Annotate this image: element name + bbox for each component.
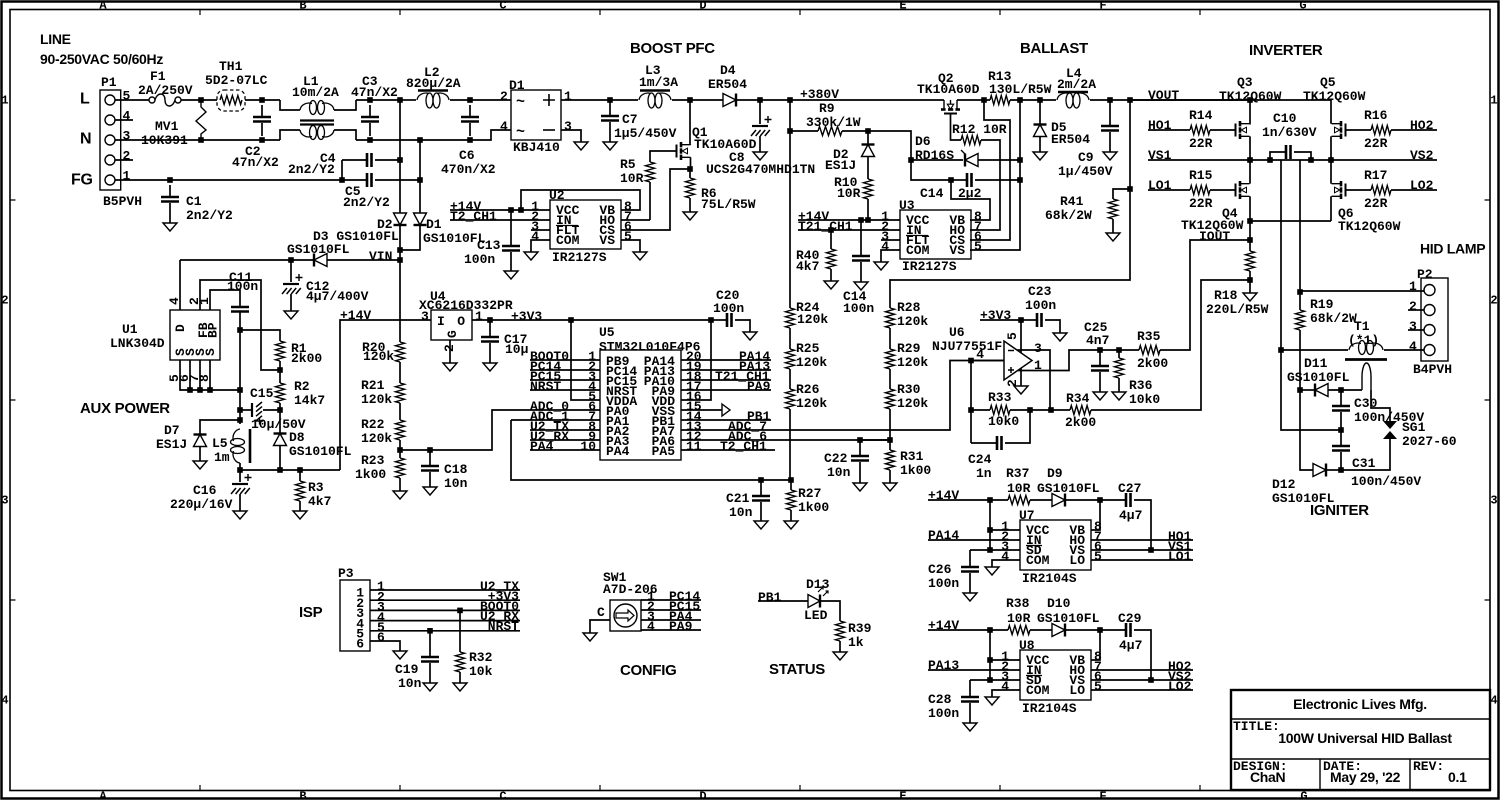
- svg-text:10: 10: [580, 439, 596, 454]
- junction: [427, 628, 433, 634]
- wire top rail to L2: [400, 99, 416, 101]
- junction: [237, 417, 243, 423]
- capacitor C23: [1021, 319, 1037, 321]
- mosfet Q1: [689, 100, 691, 145]
- svg-text:VS2: VS2: [1410, 148, 1434, 163]
- svg-text:U7: U7: [1019, 508, 1035, 523]
- svg-text:LO2: LO2: [1410, 178, 1434, 193]
- svg-text:2k00: 2k00: [291, 351, 322, 366]
- diode D12: [1313, 464, 1326, 477]
- ground: [574, 142, 588, 150]
- svg-text:4: 4: [647, 619, 655, 634]
- wire U5 pin19: [681, 369, 771, 371]
- junction: [757, 97, 763, 103]
- capacitor C20: [711, 319, 727, 321]
- ground: [423, 487, 437, 495]
- svg-text:330k/1W: 330k/1W: [806, 115, 861, 130]
- wire P3 pin1: [370, 589, 520, 591]
- wire U7 pin4 COM to ground: [992, 560, 1020, 567]
- junction: [417, 137, 423, 143]
- wire U3 VB to C14: [951, 180, 990, 220]
- svg-text:CONFIG: CONFIG: [620, 662, 677, 679]
- svg-text:R27: R27: [798, 486, 821, 501]
- ground: [963, 723, 977, 731]
- ground: [985, 567, 999, 575]
- wire ADC_0 row: [400, 410, 600, 450]
- wire U5 pin13 ADC_7: [681, 361, 1004, 431]
- ground: [293, 511, 307, 519]
- svg-text:+3V3: +3V3: [511, 309, 542, 324]
- svg-text:MV1: MV1: [155, 119, 179, 134]
- junction: [1278, 347, 1284, 353]
- wire fuse to node: [181, 99, 217, 101]
- junction: [568, 317, 574, 323]
- junction: [198, 137, 204, 143]
- svg-text:D9: D9: [1047, 466, 1063, 481]
- capacitor C7: [609, 100, 611, 115]
- ground: [163, 223, 177, 231]
- wire L2 to C6/bridge: [450, 99, 511, 101]
- mosfet Q1 drain-source leads: [690, 157, 692, 169]
- svg-text:100n: 100n: [1025, 298, 1056, 313]
- inductor L1 common-mode choke: [280, 100, 300, 110]
- svg-text:ChaN: ChaN: [1250, 769, 1286, 785]
- svg-text:R37: R37: [1006, 466, 1029, 481]
- wire Q2 gate to R12: [951, 114, 962, 141]
- junction: [1097, 347, 1103, 353]
- svg-text:1m/3A: 1m/3A: [639, 75, 678, 90]
- wire U7 pin3 SD: [970, 549, 1020, 551]
- wire source bus: [180, 360, 240, 390]
- wire +14V column U8: [989, 630, 991, 680]
- wire R13 to L4: [1010, 99, 1056, 101]
- junction: [987, 627, 993, 633]
- svg-text:2A/250V: 2A/250V: [138, 83, 193, 98]
- svg-text:1k00: 1k00: [798, 500, 829, 515]
- junction: [1328, 157, 1334, 163]
- svg-text:1: 1: [564, 89, 572, 104]
- svg-text:10k0: 10k0: [988, 414, 1019, 429]
- wire P3 pin2: [370, 599, 520, 601]
- wire U5 pin2: [530, 369, 600, 371]
- connector P3: [340, 580, 370, 651]
- svg-text:R28: R28: [897, 300, 921, 315]
- wire VS2: [1331, 159, 1437, 161]
- svg-text:1: 1: [1409, 279, 1417, 294]
- diode D1 input: [414, 213, 427, 225]
- wire U2 VCC to VB loop: [521, 190, 640, 210]
- resistor R1: [276, 341, 285, 361]
- wire bridge pin1 out: [561, 99, 638, 101]
- ground: [1112, 392, 1126, 400]
- svg-text:R22: R22: [361, 417, 385, 432]
- ground: [883, 483, 897, 491]
- resistor R36: [1118, 350, 1120, 358]
- capacitor C30: [1340, 390, 1342, 405]
- junction: [1297, 387, 1303, 393]
- wire VIN to R20: [399, 260, 401, 342]
- resistor R24: [786, 308, 795, 328]
- svg-text:14k7: 14k7: [294, 393, 325, 408]
- svg-text:100n/450V: 100n/450V: [1351, 474, 1421, 489]
- wire U7 VB: [1091, 500, 1100, 530]
- ground: [1093, 392, 1107, 400]
- junction: [708, 317, 714, 323]
- capacitor C10: [1270, 152, 1286, 160]
- wire D3 to VIN junction: [327, 259, 400, 261]
- capacitor C26: [969, 550, 971, 566]
- svg-text:D12: D12: [1272, 477, 1296, 492]
- junction: [948, 177, 954, 183]
- wire U5 pin1: [530, 359, 600, 361]
- svg-text:U8: U8: [1019, 638, 1035, 653]
- svg-text:5: 5: [1005, 332, 1020, 340]
- svg-text:HO1: HO1: [1148, 118, 1172, 133]
- resistor R38: [1008, 626, 1030, 635]
- wire U6 pin2 to ground: [1020, 368, 1022, 386]
- capacitor C29: [1100, 629, 1126, 631]
- svg-text:B4PVH: B4PVH: [1413, 362, 1452, 377]
- svg-text:U1: U1: [122, 322, 138, 337]
- ground: [284, 311, 298, 319]
- P1 stub pin2: [115, 159, 133, 161]
- resistor R21: [396, 383, 405, 403]
- junction: [1267, 157, 1273, 163]
- svg-text:E: E: [899, 0, 906, 13]
- svg-text:BALLAST: BALLAST: [1020, 40, 1088, 57]
- svg-text:A: A: [99, 790, 107, 800]
- ground: [963, 593, 977, 601]
- resistor R37: [1008, 496, 1030, 505]
- svg-text:C29: C29: [1118, 611, 1142, 626]
- junction: [607, 97, 613, 103]
- junction: [1338, 387, 1344, 393]
- svg-text:C14: C14: [920, 186, 944, 201]
- svg-text:LINE: LINE: [40, 31, 71, 47]
- capacitor C3: [369, 105, 371, 116]
- resistor R22: [396, 420, 405, 440]
- wire aux output row: [240, 469, 340, 471]
- wire ADC_1 filter row: [511, 420, 791, 480]
- svg-text:S: S: [203, 348, 218, 356]
- svg-text:R5: R5: [620, 157, 636, 172]
- wire N to bridge pin4: [420, 130, 511, 140]
- svg-text:R12 10R: R12 10R: [952, 122, 1007, 137]
- ground: [743, 332, 757, 340]
- junction: [1127, 186, 1133, 192]
- svg-text:PA4: PA4: [606, 444, 630, 459]
- svg-text:C1: C1: [186, 194, 202, 209]
- wire U8 pin3 SD: [970, 679, 1020, 681]
- svg-text:C9: C9: [1078, 150, 1094, 165]
- wire FG: [115, 179, 342, 181]
- svg-text:R19: R19: [1310, 297, 1334, 312]
- junction: [865, 217, 871, 223]
- svg-text:TK12Q60W: TK12Q60W: [1338, 219, 1401, 234]
- svg-text:90-250VAC 50/60Hz: 90-250VAC 50/60Hz: [40, 51, 163, 67]
- svg-text:120k: 120k: [796, 396, 827, 411]
- capacitor C27: [1100, 499, 1126, 501]
- svg-text:C22: C22: [824, 451, 848, 466]
- svg-text:R31: R31: [900, 449, 924, 464]
- connector P1: [100, 90, 121, 190]
- transformer T1 primary: [1281, 349, 1348, 351]
- svg-text:VS: VS: [599, 233, 615, 248]
- svg-text:4µ7: 4µ7: [1119, 508, 1142, 523]
- wire U5 pin11: [681, 449, 775, 451]
- wire U3 pin2 IN: [798, 229, 900, 231]
- resistor R12: [961, 136, 981, 145]
- wire Q6 gate to R17: [1346, 189, 1371, 191]
- svg-text:120k: 120k: [361, 431, 392, 446]
- junction: [237, 387, 243, 393]
- svg-text:P2: P2: [1417, 267, 1433, 282]
- svg-text:F: F: [1099, 790, 1106, 800]
- svg-text:4: 4: [881, 239, 889, 254]
- junction: [467, 97, 473, 103]
- svg-text:3: 3: [123, 129, 131, 144]
- resistor R16: [1371, 126, 1391, 135]
- wire U5 pin20: [681, 359, 771, 361]
- svg-text:T2_CH1: T2_CH1: [720, 439, 767, 454]
- svg-text:10R: 10R: [620, 171, 644, 186]
- ground: [754, 521, 768, 529]
- svg-text:C26: C26: [928, 562, 952, 577]
- inductor L2: [418, 89, 448, 92]
- svg-text:A: A: [99, 0, 107, 13]
- junction: [397, 97, 403, 103]
- resistor R5: [646, 162, 655, 182]
- resistor R6: [689, 169, 691, 178]
- junction: [1247, 277, 1253, 283]
- wire VOUT sense feed: [890, 100, 1130, 308]
- wire PB1 to LED: [758, 600, 808, 602]
- svg-text:C18: C18: [444, 462, 468, 477]
- junction: [397, 247, 403, 253]
- svg-text:+14V: +14V: [928, 618, 959, 633]
- resistor R27: [790, 480, 792, 490]
- wire R12 to U3 HO: [970, 140, 1000, 230]
- svg-text:1µ/450V: 1µ/450V: [1058, 164, 1113, 179]
- resistor R29: [886, 349, 895, 369]
- svg-text:ER504: ER504: [1051, 132, 1090, 147]
- svg-text:2n2/Y2: 2n2/Y2: [186, 208, 233, 223]
- capacitor C14 decoupling: [860, 220, 862, 255]
- svg-text:R29: R29: [897, 341, 921, 356]
- svg-text:R30: R30: [897, 382, 921, 397]
- wire SW1 pin1: [641, 599, 701, 601]
- svg-text:R25: R25: [796, 341, 820, 356]
- svg-text:4: 4: [1490, 694, 1497, 708]
- wire D4 to +380 rail: [736, 99, 944, 101]
- wire P3 pin4: [370, 620, 520, 622]
- junction: [1027, 407, 1033, 413]
- junction: [987, 497, 993, 503]
- svg-text:120k: 120k: [796, 355, 827, 370]
- svg-text:T2_CH1: T2_CH1: [450, 209, 497, 224]
- junction: [237, 467, 243, 473]
- resistor R34: [1070, 406, 1091, 415]
- wire U1 pin1 BP to C11: [210, 290, 240, 310]
- svg-text:R15: R15: [1189, 168, 1213, 183]
- svg-text:GS1010FL: GS1010FL: [287, 242, 350, 257]
- junction: [687, 97, 693, 103]
- wire VOUT rail: [1130, 99, 1330, 101]
- wire R1 top: [240, 330, 280, 341]
- svg-text:100n: 100n: [464, 252, 495, 267]
- svg-text:D: D: [173, 324, 188, 332]
- junction: [297, 467, 303, 473]
- resistor R30: [886, 389, 895, 409]
- resistor R15: [1190, 186, 1210, 195]
- svg-text:IR2127S: IR2127S: [552, 250, 607, 265]
- op-amp U6 NJU77551F: [1004, 341, 1032, 380]
- svg-text:C15: C15: [250, 386, 274, 401]
- svg-text:SG1: SG1: [1402, 420, 1426, 435]
- ground: [504, 271, 518, 279]
- svg-text:R3: R3: [308, 480, 324, 495]
- mosfet Q3: [1235, 124, 1237, 137]
- resistor R2: [276, 383, 285, 403]
- ground: [874, 262, 888, 270]
- svg-text:1k00: 1k00: [900, 463, 931, 478]
- wire L4 to VOUT: [1090, 99, 1250, 101]
- junction: [787, 97, 793, 103]
- svg-text:10n: 10n: [729, 505, 753, 520]
- thermistor TH1: [217, 90, 245, 111]
- svg-text:3: 3: [421, 309, 429, 324]
- junction: [1097, 497, 1103, 503]
- svg-text:ER504: ER504: [708, 77, 747, 92]
- varistor MV1: [196, 100, 206, 140]
- svg-text:4: 4: [500, 119, 508, 134]
- ground: [393, 491, 407, 499]
- junction: [367, 137, 373, 143]
- svg-text:68k/2W: 68k/2W: [1310, 311, 1357, 326]
- wire source column: [239, 330, 241, 424]
- svg-text:GS1010FL: GS1010FL: [1037, 481, 1100, 496]
- wire U6 pin4 input: [971, 360, 1004, 362]
- wire U5 pin9: [530, 439, 600, 441]
- svg-text:4µ7/400V: 4µ7/400V: [306, 289, 369, 304]
- svg-text:R18: R18: [1214, 288, 1238, 303]
- wire U5 pin12 ADC_6: [681, 439, 890, 441]
- svg-text:L5: L5: [212, 436, 228, 451]
- junction: [981, 97, 987, 103]
- svg-text:G: G: [445, 330, 460, 338]
- junction: [788, 477, 794, 483]
- wire L3 to D4: [672, 99, 723, 101]
- svg-text:5: 5: [974, 239, 982, 254]
- wire LO1 to R15: [1148, 189, 1190, 191]
- ic U1 LNK304D: [170, 310, 220, 360]
- ground: [824, 281, 838, 289]
- svg-text:R2: R2: [294, 379, 310, 394]
- svg-text:C: C: [597, 605, 605, 620]
- svg-text:220L/R5W: 220L/R5W: [1206, 302, 1269, 317]
- capacitor C12: [290, 260, 292, 282]
- svg-text:C: C: [499, 790, 506, 800]
- wire U5 pin15 VSS to ground: [681, 409, 722, 411]
- junction: [259, 97, 265, 103]
- svg-text:May 29, '22: May 29, '22: [1330, 769, 1401, 785]
- svg-text:HID LAMP: HID LAMP: [1420, 241, 1485, 257]
- wire HO1 to R14: [1148, 129, 1190, 131]
- junction: [1148, 547, 1154, 553]
- ground: [453, 683, 467, 691]
- wire D1 to VIN node: [400, 226, 420, 251]
- svg-text:COM: COM: [1026, 683, 1050, 698]
- capacitor C21: [760, 480, 762, 495]
- svg-text:F1: F1: [150, 69, 166, 84]
- svg-text:NRST: NRST: [530, 379, 561, 394]
- P1 stub pin4: [115, 119, 133, 121]
- led D13: [808, 595, 820, 608]
- ic U3 IR2127S: [900, 210, 971, 259]
- diode D10: [1030, 629, 1052, 631]
- junction: [968, 358, 974, 364]
- capacitor C13: [510, 210, 512, 245]
- wire U5 pin14: [681, 419, 771, 421]
- junction: [187, 387, 193, 393]
- svg-text:T21_CH1: T21_CH1: [798, 219, 853, 234]
- svg-text:COM: COM: [556, 233, 580, 248]
- svg-text:LO1: LO1: [1148, 178, 1172, 193]
- diode D7 freewheel: [200, 420, 240, 434]
- junction: [237, 327, 243, 333]
- svg-text:R21: R21: [361, 378, 385, 393]
- junction: [1017, 97, 1023, 103]
- resistor R17: [1371, 186, 1391, 195]
- inductor L4: [1058, 91, 1088, 94]
- svg-text:1n: 1n: [976, 466, 992, 481]
- wire P3 pin6 to ground: [370, 641, 400, 651]
- svg-text:PA9: PA9: [747, 379, 771, 394]
- ground: [193, 461, 207, 469]
- junction: [1308, 157, 1314, 163]
- resistor R41 bleeder: [1113, 189, 1130, 199]
- wire U5 pin18: [681, 379, 771, 381]
- svg-text:D11: D11: [1304, 356, 1328, 371]
- wire L1 to C3 top: [356, 99, 400, 101]
- mosfet Q2 buck switch: [944, 100, 957, 109]
- svg-text:C16: C16: [193, 483, 217, 498]
- wire U5 pin17: [681, 389, 771, 391]
- ground: [985, 697, 999, 705]
- svg-text:LO2: LO2: [1168, 679, 1192, 694]
- svg-text:BOOST PFC: BOOST PFC: [630, 40, 715, 57]
- svg-text:4n7: 4n7: [1086, 333, 1109, 348]
- wire U8 VS out: [1091, 679, 1193, 681]
- svg-text:Q5: Q5: [1320, 75, 1336, 90]
- junction: [968, 407, 974, 413]
- svg-text:UCS2G470MHD1TN: UCS2G470MHD1TN: [706, 162, 815, 177]
- junction: [858, 217, 864, 223]
- svg-text:10n: 10n: [398, 676, 422, 691]
- svg-text:22R: 22R: [1364, 136, 1388, 151]
- wire U8 VB: [1091, 630, 1100, 660]
- svg-text:120k: 120k: [797, 312, 828, 327]
- wire U2 HO to R5: [621, 219, 650, 221]
- svg-text:IR2104S: IR2104S: [1022, 701, 1077, 716]
- ground: [753, 152, 767, 160]
- svg-text:75L/R5W: 75L/R5W: [701, 197, 756, 212]
- resistor R19: [1299, 292, 1301, 310]
- junction: [518, 207, 524, 213]
- ground: [633, 252, 647, 260]
- svg-text:PA5: PA5: [652, 444, 676, 459]
- svg-text:100n: 100n: [928, 576, 959, 591]
